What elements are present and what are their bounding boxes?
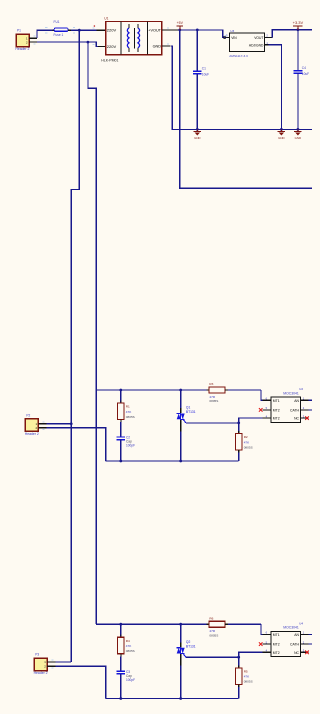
svg-text:47K: 47K — [244, 440, 250, 444]
svg-text:MOC3041: MOC3041 — [283, 392, 299, 396]
svg-text:NC: NC — [294, 417, 299, 421]
svg-text:+3.3V: +3.3V — [293, 20, 304, 25]
svg-text:10uF: 10uF — [202, 73, 209, 77]
svg-text:0805S: 0805S — [209, 633, 218, 637]
svg-text:AMS1117-3.3: AMS1117-3.3 — [229, 54, 248, 58]
svg-text:+5V: +5V — [177, 21, 184, 25]
svg-text:0805S: 0805S — [126, 415, 135, 419]
svg-text:U1: U1 — [104, 17, 108, 21]
svg-text:CATH: CATH — [290, 408, 300, 412]
svg-text:HLK-PM01: HLK-PM01 — [101, 58, 118, 62]
svg-text:GND: GND — [278, 136, 284, 140]
svg-text:Fuse 1: Fuse 1 — [54, 33, 64, 37]
svg-text:MT2: MT2 — [273, 651, 280, 655]
svg-text:ADJ/GND: ADJ/GND — [249, 44, 264, 48]
svg-text:R2: R2 — [244, 435, 248, 439]
svg-text:100pF: 100pF — [126, 678, 135, 682]
svg-text:P1: P1 — [17, 29, 21, 33]
svg-text:VOUT: VOUT — [254, 36, 263, 40]
svg-text:AN: AN — [294, 399, 299, 403]
svg-text:R4: R4 — [126, 639, 130, 643]
svg-text:MOC3041: MOC3041 — [283, 626, 299, 630]
svg-text:220V: 220V — [107, 28, 117, 33]
svg-text:R3: R3 — [209, 382, 213, 386]
svg-text:MT2: MT2 — [273, 408, 280, 412]
svg-text:BT131: BT131 — [186, 410, 196, 414]
svg-text:BT131: BT131 — [186, 644, 196, 648]
svg-text:0805S: 0805S — [126, 649, 135, 653]
svg-text:MT1: MT1 — [273, 633, 280, 637]
svg-text:MT2: MT2 — [273, 643, 280, 647]
svg-text:U2: U2 — [299, 387, 303, 391]
svg-text:AN: AN — [294, 633, 299, 637]
svg-text:MT1: MT1 — [273, 399, 280, 403]
svg-text:C1: C1 — [202, 66, 206, 70]
svg-text:47K: 47K — [126, 644, 132, 648]
svg-text:Header 2: Header 2 — [25, 432, 39, 436]
svg-text:P3: P3 — [35, 653, 39, 657]
svg-text:100pF: 100pF — [126, 444, 135, 448]
svg-text:Q2: Q2 — [186, 640, 191, 644]
svg-text:U4: U4 — [299, 621, 303, 625]
svg-text:0805S: 0805S — [244, 445, 253, 449]
svg-text:0805S: 0805S — [244, 680, 253, 684]
svg-text:R1: R1 — [126, 405, 130, 409]
svg-text:Header 2: Header 2 — [34, 671, 48, 675]
svg-text:NC: NC — [294, 651, 299, 655]
svg-text:+VOUT: +VOUT — [148, 28, 161, 32]
svg-text:R6: R6 — [209, 616, 213, 620]
svg-text:R5: R5 — [244, 670, 248, 674]
svg-text:0805S: 0805S — [209, 399, 218, 403]
svg-text:220V: 220V — [107, 44, 117, 49]
svg-text:Header 2: Header 2 — [15, 47, 29, 51]
svg-text:GND: GND — [153, 44, 162, 48]
svg-text:MT2: MT2 — [273, 417, 280, 421]
svg-text:FU1: FU1 — [54, 20, 60, 24]
svg-text:47K: 47K — [244, 675, 250, 679]
svg-text:CATH: CATH — [290, 643, 300, 647]
svg-text:10uF: 10uF — [302, 72, 309, 76]
svg-text:VIN: VIN — [231, 36, 237, 40]
svg-text:C4: C4 — [302, 66, 306, 70]
svg-text:GND: GND — [194, 136, 200, 140]
svg-text:GND: GND — [295, 136, 301, 140]
svg-text:P2: P2 — [26, 413, 30, 417]
svg-text:47K: 47K — [126, 410, 132, 414]
svg-text:Q1: Q1 — [186, 406, 191, 410]
svg-text:U3: U3 — [230, 29, 234, 33]
